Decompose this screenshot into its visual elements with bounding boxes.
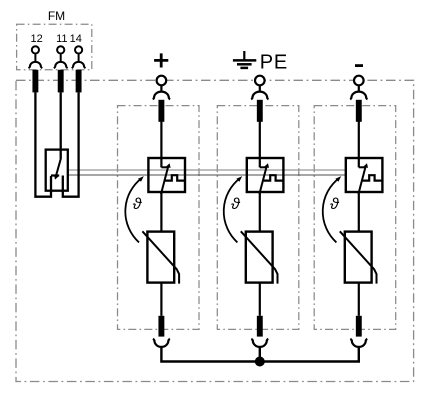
branch 3 wire varistor to bottom lead xyxy=(358,283,360,316)
branch 3 bottom socket xyxy=(350,339,367,347)
branch 1 thermal arrowhead xyxy=(138,176,144,182)
branch 3 disconnector fixed contact (stepped) xyxy=(363,175,384,180)
branch 3 wire terminal to disconnector xyxy=(358,122,360,168)
terminal label 12 xyxy=(30,33,42,45)
svg-text:ϑ: ϑ xyxy=(330,196,340,213)
branch 3 varistor box xyxy=(345,232,372,283)
branch 1 disconnector blade xyxy=(161,165,169,194)
branch 1 wire terminal to disconnector xyxy=(160,122,162,168)
mechanical coupling line (lower) xyxy=(68,174,347,176)
terminal label 14 xyxy=(70,33,82,45)
branch 2 disconnector jog xyxy=(260,166,267,168)
branch 1 wire varistor to bottom lead xyxy=(160,283,162,316)
branch 3 terminal - (pin, socket, lead) xyxy=(350,76,367,122)
branch 1 thermal trip arrow xyxy=(125,178,141,242)
branch 2 terminal PE (pin, socket, lead) xyxy=(251,76,268,122)
branch 1 disconnector fixed contact (stepped) xyxy=(165,175,186,180)
branch 2 bottom lead xyxy=(257,316,263,337)
FM contact NC fixed contact xyxy=(51,174,59,176)
equipotential bus wire xyxy=(161,346,358,361)
branch 2 thermal trip arrow xyxy=(224,178,240,242)
branch 3 theta symbol xyxy=(330,196,340,213)
branch 2 bottom socket xyxy=(251,339,268,347)
branch 3 thermal disconnector box xyxy=(346,158,383,192)
branch 1 blade arrowhead xyxy=(165,163,170,168)
earth symbol (PE) xyxy=(233,51,256,68)
svg-text:ϑ: ϑ xyxy=(133,196,143,213)
branch 2 blade arrowhead xyxy=(264,163,269,168)
svg-text:12: 12 xyxy=(30,33,42,45)
branch 2 thermal arrowhead xyxy=(236,176,242,182)
FM blade arrowhead xyxy=(54,175,59,180)
outer device boundary (dashed) xyxy=(16,80,414,381)
branch 2 stem to bus xyxy=(259,346,261,361)
branch 2 varistor diagonal xyxy=(241,231,278,283)
branch 2 wire disconnector to varistor xyxy=(259,192,261,232)
label PE xyxy=(260,52,288,74)
polarity label + xyxy=(154,53,168,67)
terminal 14 (pin, socket, lead) xyxy=(72,46,86,92)
branch 3 thermal arrowhead xyxy=(335,176,341,182)
branch 2 theta symbol xyxy=(231,196,241,213)
svg-text:PE: PE xyxy=(260,52,288,74)
branch 3 disconnector jog xyxy=(359,166,366,168)
label FM xyxy=(48,9,65,23)
branch 1 bottom socket xyxy=(153,339,170,347)
svg-text:14: 14 xyxy=(70,33,82,45)
relay box K (FM changeover contact) xyxy=(46,150,68,191)
protection path 3 boundary (dashed) xyxy=(314,106,396,330)
branch 3 bottom lead xyxy=(356,316,362,337)
branch 2 disconnector blade xyxy=(259,165,267,194)
protection path 1 boundary (dashed) xyxy=(118,106,200,330)
branch 1 wire disconnector to varistor xyxy=(160,192,162,232)
branch 1 varistor diagonal xyxy=(142,231,179,283)
svg-text:FM: FM xyxy=(48,9,65,23)
branch 1 thermal disconnector box xyxy=(148,158,185,192)
wire terminal 14 to NO contact xyxy=(63,92,79,196)
branch 1 terminal + (pin, socket, lead) xyxy=(153,76,170,122)
branch 1 disconnector jog xyxy=(161,166,168,168)
branch 3 blade arrowhead xyxy=(363,163,368,168)
branch 3 varistor diagonal xyxy=(340,231,377,283)
branch 2 thermal disconnector box xyxy=(247,158,284,192)
polarity label - xyxy=(355,64,363,67)
branch 1 bottom lead xyxy=(158,316,164,337)
branch 2 wire varistor to bottom lead xyxy=(259,283,261,316)
FM remote-contact boundary (dashed) xyxy=(17,24,92,70)
branch 3 wire disconnector to varistor xyxy=(358,192,360,232)
branch 3 thermal trip arrow xyxy=(323,178,339,242)
branch 1 theta symbol xyxy=(133,196,143,213)
svg-text:11: 11 xyxy=(56,33,67,45)
bus junction node xyxy=(255,357,265,367)
terminal 12 (pin, socket, lead) xyxy=(29,46,43,92)
branch 3 disconnector blade xyxy=(358,165,366,194)
mechanical coupling line (upper) xyxy=(68,169,347,171)
protection path 2 boundary (dashed) xyxy=(217,106,298,330)
terminal 11 (pin, socket, lead) xyxy=(54,46,68,92)
branch 1 varistor box xyxy=(147,232,174,283)
FM switch blade xyxy=(56,158,61,176)
branch 2 disconnector fixed contact (stepped) xyxy=(264,175,285,180)
wire terminal 11 (common) xyxy=(60,92,62,158)
wire terminal 12 to NC contact xyxy=(35,92,51,196)
terminal label 11 xyxy=(56,33,67,45)
svg-text:ϑ: ϑ xyxy=(231,196,241,213)
branch 2 wire terminal to disconnector xyxy=(259,122,261,168)
branch 2 varistor box xyxy=(246,232,273,283)
